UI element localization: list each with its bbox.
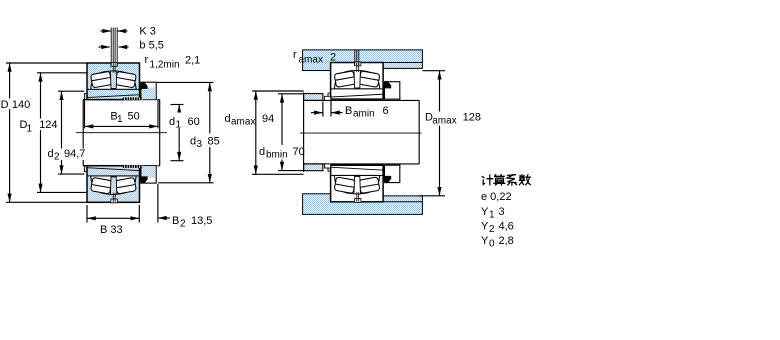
svg-text:3: 3 [197, 139, 203, 150]
svg-text:13,5: 13,5 [191, 215, 212, 227]
svg-text:2: 2 [54, 152, 60, 163]
svg-text:1,2min: 1,2min [150, 60, 180, 71]
svg-text:amin: amin [353, 109, 375, 120]
svg-text:amax: amax [231, 116, 255, 127]
svg-text:1: 1 [27, 123, 33, 134]
svg-text:70: 70 [293, 146, 305, 158]
svg-text:amax: amax [299, 55, 323, 66]
svg-text:D: D [1, 99, 9, 111]
svg-text:2,1: 2,1 [185, 55, 200, 67]
svg-text:r: r [293, 49, 297, 61]
svg-text:2: 2 [180, 219, 186, 230]
svg-text:K 3: K 3 [139, 26, 156, 38]
svg-text:b 5,5: b 5,5 [139, 40, 163, 52]
svg-text:1: 1 [117, 114, 123, 125]
svg-text:128: 128 [463, 111, 481, 123]
svg-text:60: 60 [188, 116, 200, 128]
svg-text:B 33: B 33 [100, 224, 123, 236]
svg-text:124: 124 [39, 119, 57, 131]
svg-text:2: 2 [489, 224, 495, 235]
svg-text:140: 140 [12, 99, 30, 111]
svg-text:B: B [345, 105, 352, 117]
svg-text:B: B [172, 215, 179, 227]
svg-text:d: d [190, 136, 196, 148]
svg-text:bmin: bmin [266, 150, 288, 161]
svg-text:amax: amax [432, 116, 456, 127]
svg-text:4,6: 4,6 [499, 221, 514, 233]
svg-text:d: d [48, 148, 54, 160]
svg-text:1: 1 [489, 210, 495, 221]
svg-text:Y: Y [481, 221, 489, 233]
svg-text:r: r [145, 54, 149, 66]
svg-text:6: 6 [383, 105, 389, 117]
svg-text:94,7: 94,7 [64, 148, 85, 160]
svg-text:Y: Y [481, 206, 489, 218]
svg-text:d: d [259, 146, 265, 158]
svg-text:2: 2 [330, 52, 336, 64]
svg-text:Y: Y [481, 235, 489, 247]
svg-text:e 0,22: e 0,22 [481, 191, 512, 203]
svg-text:50: 50 [128, 110, 140, 122]
svg-text:d: d [169, 116, 175, 128]
svg-text:2,8: 2,8 [499, 235, 514, 247]
svg-text:85: 85 [208, 136, 220, 148]
svg-text:d: d [225, 113, 231, 125]
svg-text:1: 1 [176, 120, 182, 131]
svg-text:94: 94 [262, 113, 274, 125]
svg-text:0: 0 [489, 239, 495, 250]
svg-text:3: 3 [499, 206, 505, 218]
